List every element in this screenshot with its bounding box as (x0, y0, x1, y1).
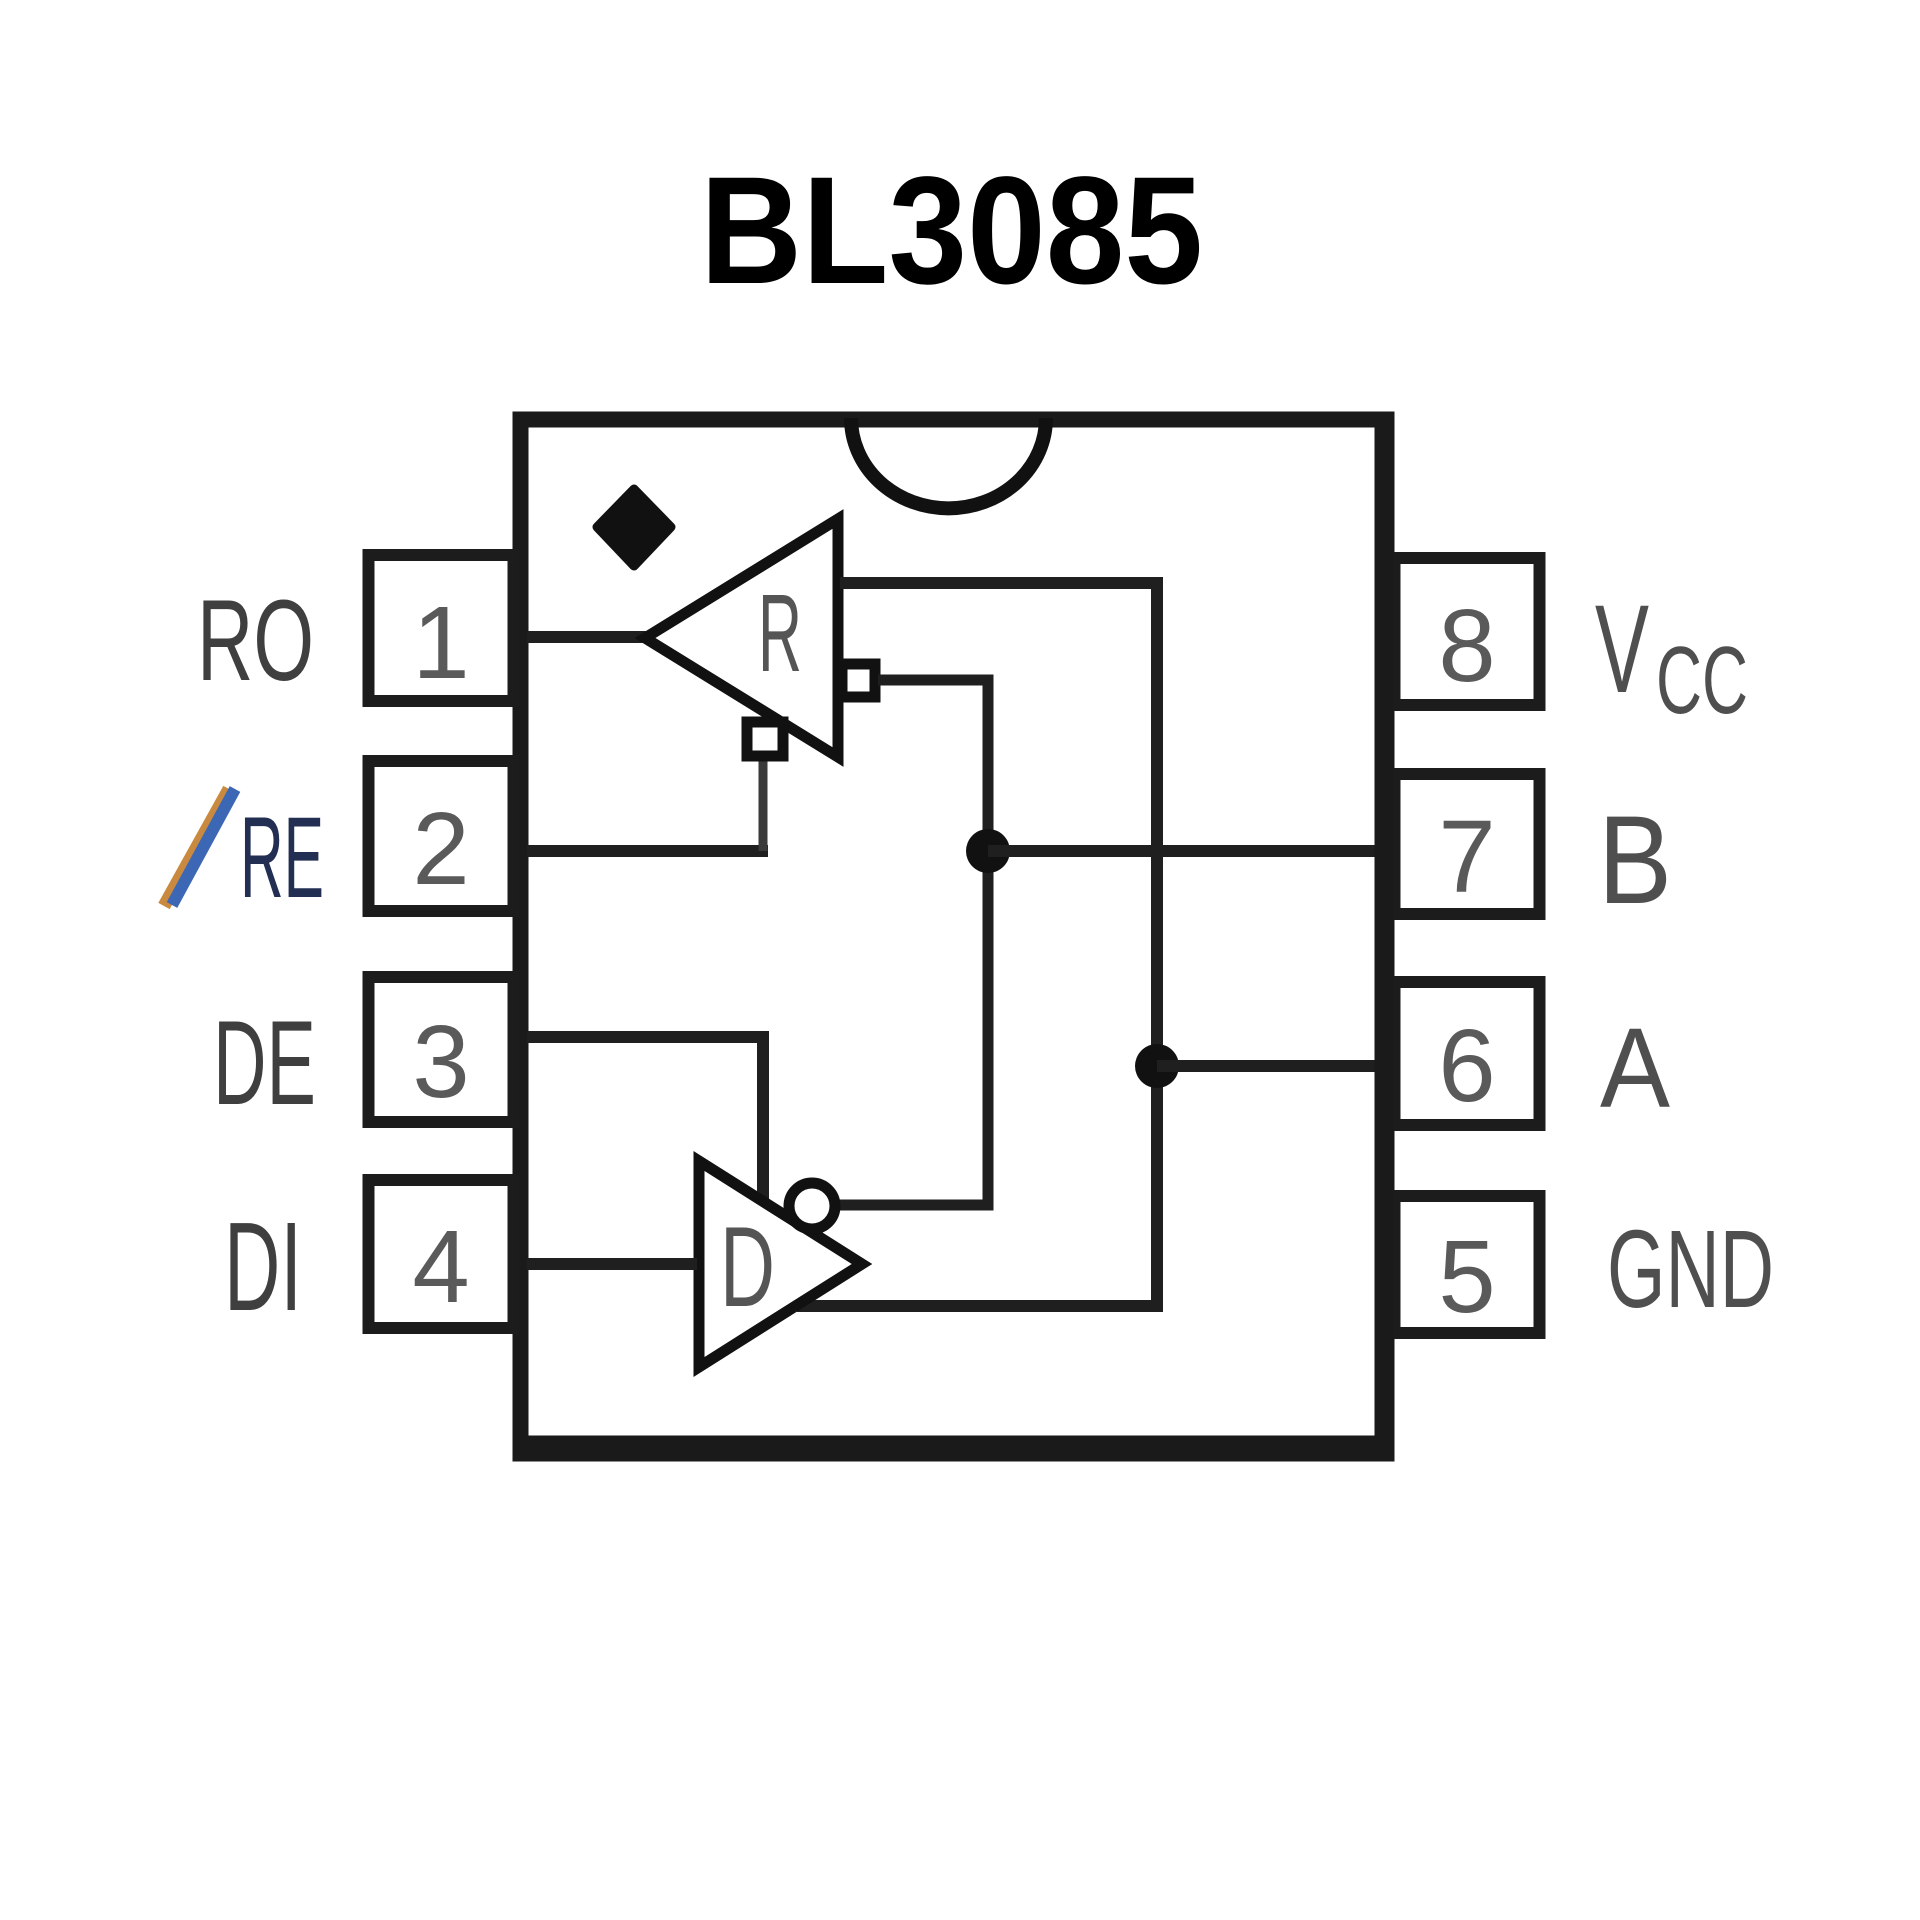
svg-text:A: A (1600, 1005, 1671, 1131)
svg-text:V: V (1595, 580, 1649, 719)
svg-text:1: 1 (412, 585, 469, 700)
svg-text:CC: CC (1656, 627, 1748, 734)
receiver R triangle (points left) (645, 519, 838, 757)
svg-text:R: R (758, 572, 802, 695)
IC body bottom edge reinforcement (514, 1436, 1393, 1453)
svg-text:6: 6 (1438, 1008, 1495, 1123)
svg-text:8: 8 (1438, 588, 1495, 703)
pin 7 box (1395, 774, 1540, 914)
pin 3 box (369, 977, 514, 1122)
pin-1 marker diamond (597, 489, 671, 566)
pin 6 box (1395, 982, 1540, 1125)
wire pin3 DE to driver enable (527, 1037, 763, 1199)
node junction to pin 7 (966, 829, 1010, 873)
wire pin2 /RE to receiver enable (527, 845, 768, 857)
wire junction to pin 6 A (1157, 1060, 1388, 1072)
pin 8 box (1395, 558, 1540, 705)
svg-text:3: 3 (412, 1004, 469, 1119)
wire junction to pin 7 B (988, 845, 1388, 857)
svg-text:D: D (720, 1204, 775, 1331)
receiver enable bubble (square) under bottom slope (747, 722, 783, 756)
driver D triangle (points right) (699, 1161, 862, 1367)
svg-text:4: 4 (412, 1209, 469, 1324)
IC body right edge reinforcement (1375, 420, 1394, 1452)
wire receiver enable vertical (759, 758, 768, 851)
pin 5 box (1395, 1196, 1540, 1333)
driver inverted output bubble (circle) on top slope (789, 1183, 835, 1229)
node junction to pin 6 (1135, 1044, 1179, 1088)
svg-text:DI: DI (224, 1196, 302, 1337)
pin 2 box (369, 761, 514, 911)
pin 4 box (369, 1180, 514, 1328)
pin 1 box (369, 555, 514, 701)
svg-text:RE: RE (240, 794, 324, 922)
notch (pin-1 end indent arc) (851, 418, 1046, 508)
svg-text:7: 7 (1438, 799, 1495, 914)
svg-text:BL3085: BL3085 (700, 145, 1203, 316)
svg-text:GND: GND (1607, 1208, 1774, 1331)
label /RE slash (blue with orange fringe) (164, 789, 229, 906)
svg-text:RO: RO (197, 577, 314, 705)
wire bubble to vertical bus and down to driver bubble (838, 680, 988, 1205)
wire pin1 RO to receiver input (527, 631, 650, 643)
wire pin4 DI to driver input (527, 1258, 697, 1270)
IC body U1 (8-pin DIP outline) (521, 420, 1387, 1454)
svg-text:DE: DE (213, 996, 316, 1130)
receiver input bubble (square) on right edge (842, 664, 875, 697)
svg-text:B: B (1598, 791, 1672, 930)
wire receiver top output to vertical bus (797, 583, 1157, 1306)
svg-text:5: 5 (1438, 1219, 1495, 1334)
svg-text:2: 2 (412, 791, 469, 906)
